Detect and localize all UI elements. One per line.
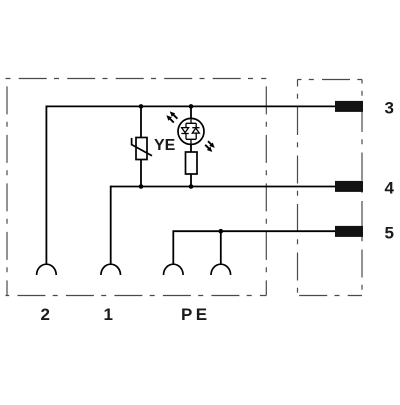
LED light arrow lower-right 1: [208, 141, 212, 145]
LED D1 internal rails: [186, 119, 196, 145]
socket outline left edge: [6, 79, 8, 296]
wire: LED branch top: [190, 106, 192, 118]
pin 3 pad: [335, 101, 363, 112]
plug outline left edge: [297, 80, 299, 296]
plug outline top edge: [298, 79, 363, 81]
svg-text:PE: PE: [181, 305, 210, 324]
socket outline right edge: [265, 79, 267, 296]
junction top LED: [189, 104, 194, 109]
wire: varistor branch top: [140, 106, 142, 137]
plug outline bottom edge: [298, 295, 363, 297]
wire: LED to resistor: [190, 144, 192, 152]
pin 5 pad: [335, 226, 363, 237]
svg-text:2: 2: [41, 305, 50, 324]
junction top varistor: [139, 104, 144, 109]
wire: top rail node 3: [46, 105, 335, 107]
resistor R1 body: [186, 152, 198, 174]
wire: PE second drop: [220, 231, 222, 264]
svg-text:5: 5: [385, 224, 394, 243]
socket outline top edge: [6, 78, 267, 80]
LED D1 circle: [178, 118, 204, 144]
svg-text:3: 3: [385, 99, 394, 118]
wire: left drop to contact 2: [45, 106, 47, 264]
svg-text:4: 4: [385, 179, 395, 198]
varistor RU1 strike: [132, 138, 152, 156]
svg-text:1: 1: [104, 305, 113, 324]
LED light arrow upper-left 2: [169, 118, 174, 123]
pin 4 pad: [335, 181, 363, 192]
LED D1 left diode (down): [182, 128, 189, 133]
LED D1 right diode (up): [192, 128, 199, 133]
contact socket 2: [37, 264, 57, 275]
contact socket PE b: [211, 264, 231, 275]
wire: varistor branch bottom: [140, 160, 142, 187]
wire: drop to contact 1: [110, 186, 112, 264]
wire: mid rail node 4: [111, 186, 335, 188]
wire: PE rail node 5: [173, 231, 335, 264]
socket outline bottom edge: [6, 295, 267, 297]
junction mid resistor: [189, 184, 194, 189]
contact socket PE a: [164, 264, 184, 275]
contact socket 1: [101, 264, 121, 275]
junction mid varistor: [139, 184, 144, 189]
plug outline right edge: [361, 80, 363, 296]
varistor RU1 body: [136, 138, 147, 160]
LED light arrow upper-left 1: [173, 114, 178, 119]
LED light arrow lower-right 2: [205, 145, 209, 149]
junction PE rail: [219, 229, 224, 234]
svg-text:YE: YE: [154, 137, 176, 154]
wire: resistor to mid rail: [190, 174, 192, 187]
